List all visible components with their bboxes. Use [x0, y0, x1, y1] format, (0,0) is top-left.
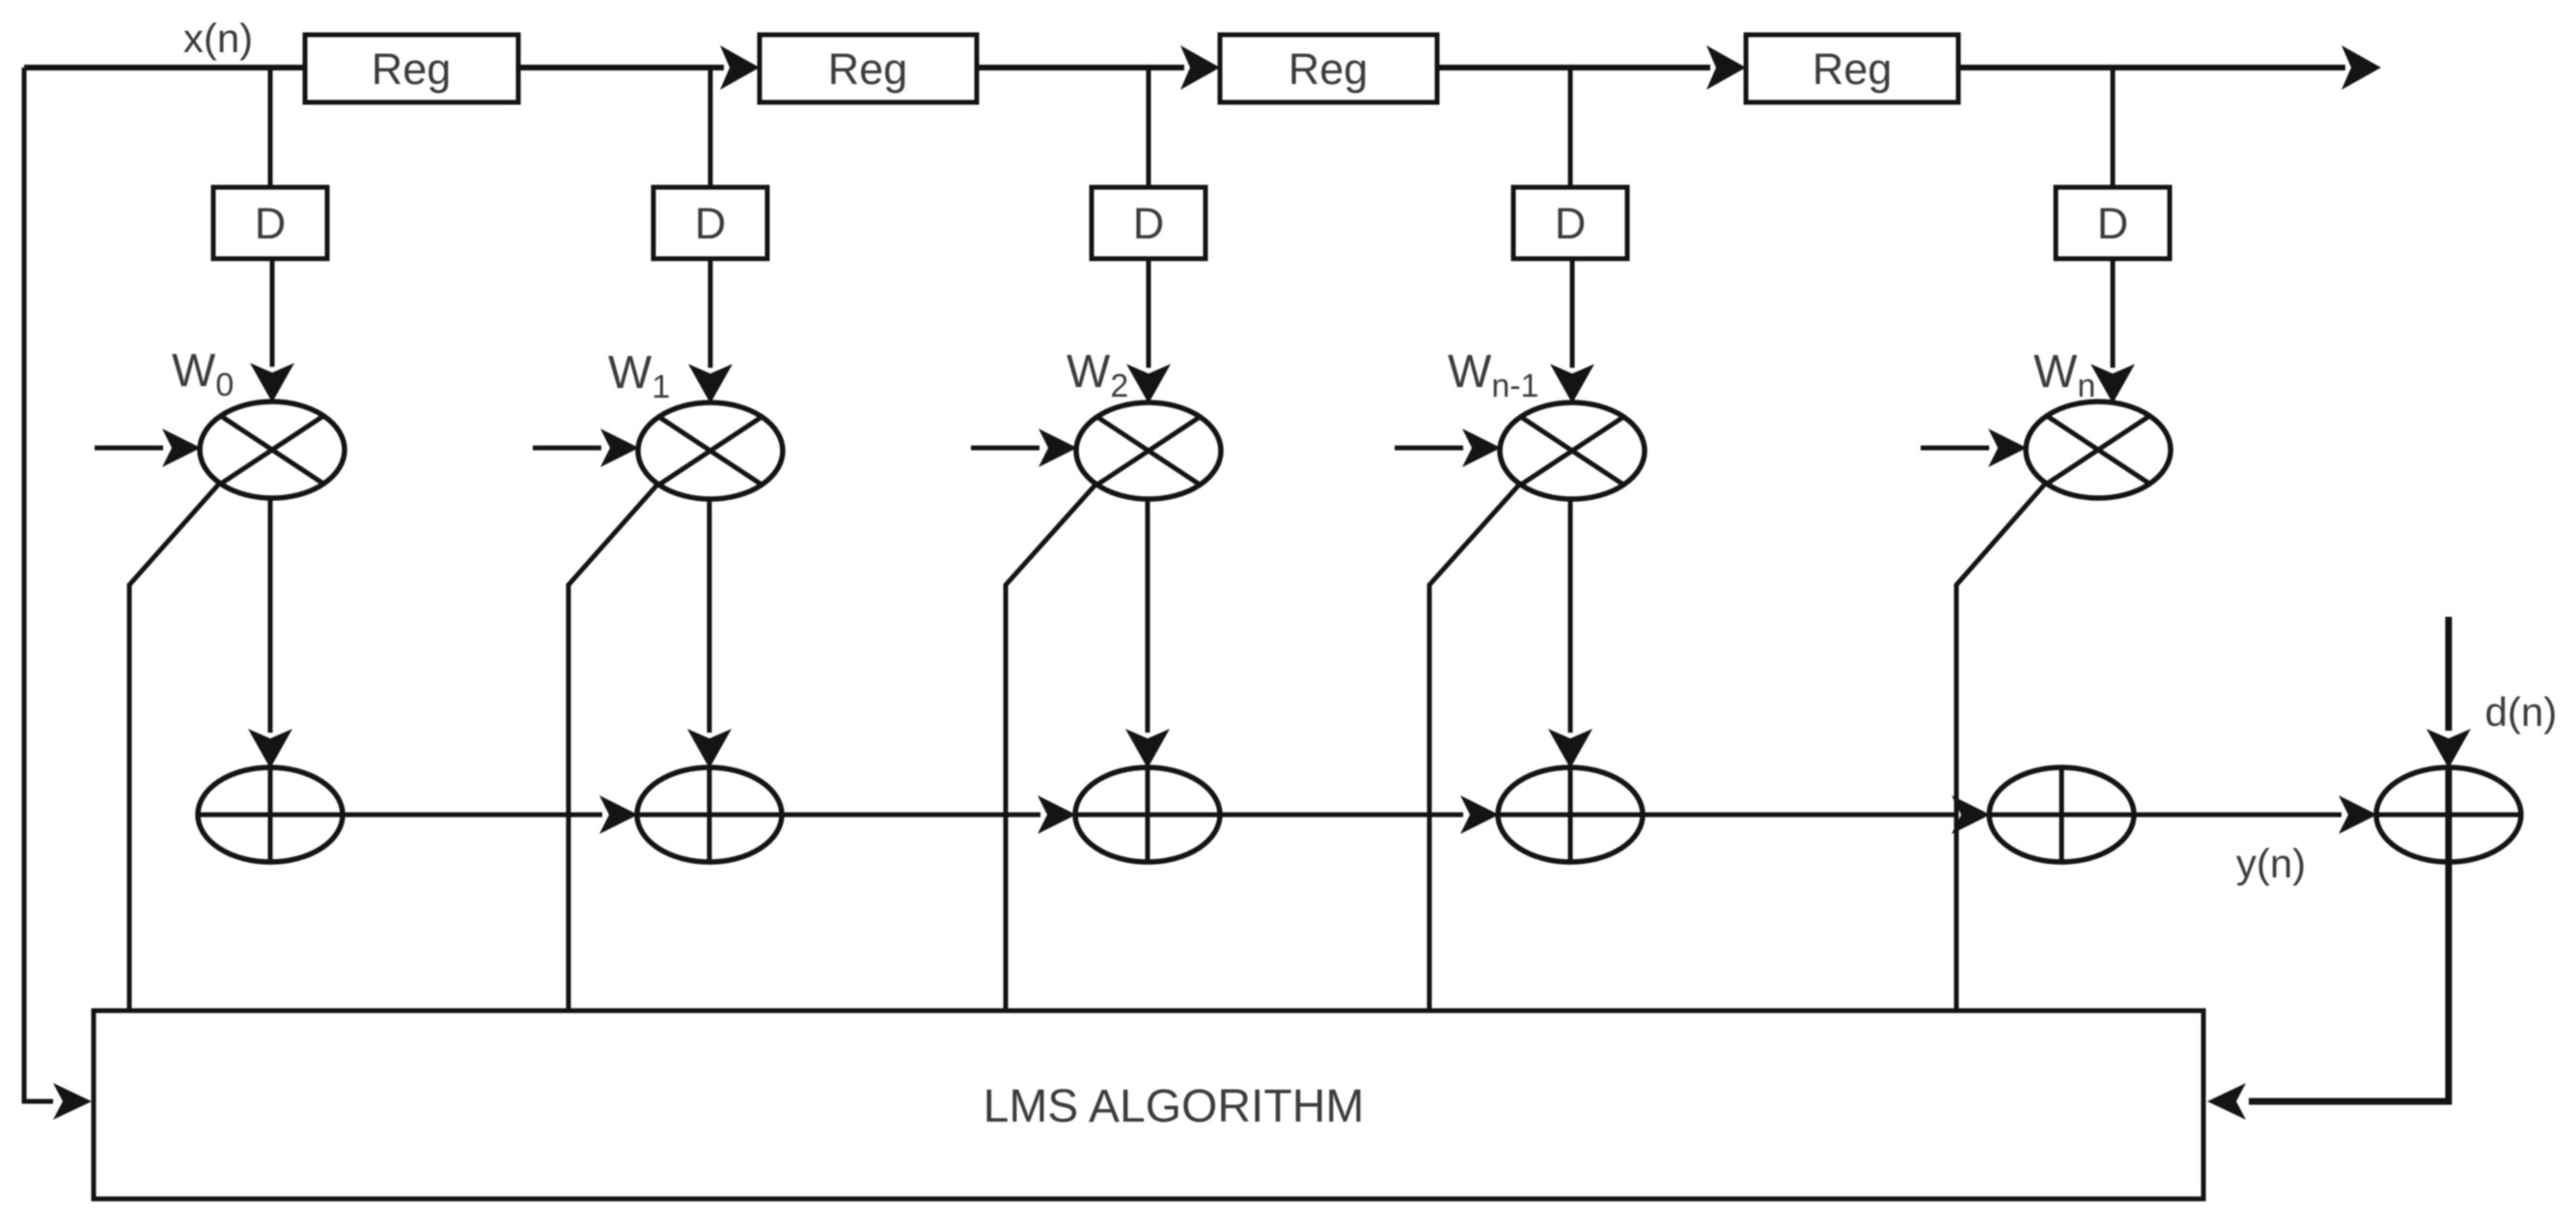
delay block D5	[2056, 187, 2170, 259]
register Reg4	[1746, 35, 1958, 102]
arrowhead into adder S1	[248, 729, 292, 768]
wire weight input into multiplier M5	[1921, 446, 1989, 451]
multiplier M4 (Wn-1)	[1500, 403, 1645, 499]
svg-text:y(n): y(n)	[2236, 841, 2306, 886]
arrowhead weight input M1	[162, 429, 201, 467]
register Reg1	[305, 35, 518, 102]
svg-text:LMS ALGORITHM: LMS ALGORITHM	[983, 1081, 1365, 1132]
arrowhead into adder S2	[599, 795, 638, 834]
svg-text:Reg: Reg	[1813, 44, 1893, 94]
arrowhead into multiplier M1	[250, 363, 294, 403]
multiplier M1 (W0)	[200, 402, 345, 498]
wire multiplier M4 output down to adder S4	[1568, 498, 1573, 733]
adder S3	[1075, 767, 1220, 862]
arrowhead main line output end	[2341, 45, 2381, 90]
wire adder S3 to adder S4	[1218, 813, 1463, 818]
svg-text:D: D	[695, 199, 727, 248]
wire adder S2 to adder S3	[780, 813, 1040, 818]
arrowhead into adder S4	[1548, 729, 1593, 768]
adder S6	[2376, 767, 2521, 862]
wire multiplier M2 tap feedback down to LMS block	[568, 484, 658, 1014]
svg-text:D: D	[1133, 199, 1165, 248]
delay block D4	[1513, 187, 1627, 259]
arrowhead into adder S3	[1125, 729, 1170, 768]
wire tap 2 from main line down to D2	[708, 68, 713, 191]
svg-text:x(n): x(n)	[183, 15, 253, 61]
adder S1	[198, 767, 343, 862]
arrowhead into Reg3	[1180, 45, 1220, 90]
register Reg3	[1220, 35, 1437, 102]
adder S4	[1498, 767, 1643, 862]
wire x(n) feedback down left side to LMS	[24, 68, 53, 1101]
wire tap 1 from main line down to D1	[268, 68, 273, 191]
wire adder S5 to adder S6	[2132, 813, 2341, 818]
svg-text:d(n): d(n)	[2485, 689, 2558, 735]
wire adder S1 to adder S2	[341, 813, 602, 818]
wire multiplier M5 tap feedback down to LMS block	[1956, 483, 2046, 1014]
wire D1 down to multiplier M1	[270, 259, 275, 367]
wire multiplier M1 output down to adder S1	[268, 497, 273, 733]
arrowhead into adder S2	[687, 729, 732, 768]
wire Reg3 to Reg4	[1437, 65, 1710, 70]
wire Reg1 to Reg2	[518, 65, 724, 70]
svg-text:Reg: Reg	[1288, 44, 1369, 94]
arrowhead weight input M5	[1988, 429, 2027, 467]
wire x(n) main input line to Reg1	[24, 65, 307, 70]
multiplier M3 (W2)	[1076, 403, 1221, 499]
wire multiplier M3 tap feedback down to LMS block	[1006, 484, 1096, 1014]
delay block D1	[213, 187, 327, 259]
wire multiplier M2 output down to adder S2	[707, 498, 712, 733]
wire weight input into multiplier M3	[971, 446, 1039, 451]
wire multiplier M4 tap feedback down to LMS block	[1429, 484, 1520, 1014]
wire adder S4 to adder S5	[1641, 813, 1954, 818]
wire error feedback from adder S6 down to LMS block	[2249, 767, 2449, 1101]
delay block D3	[1092, 187, 1205, 259]
wire tap 3 from main line down to D3	[1147, 68, 1151, 191]
svg-text:D: D	[2097, 199, 2129, 248]
arrowhead weight input M2	[600, 429, 639, 467]
adder S5	[1989, 767, 2134, 862]
arrowhead d(n) into adder S6	[2426, 729, 2471, 768]
wire Reg2 to Reg3	[977, 65, 1184, 70]
wire weight input into multiplier M1	[95, 446, 163, 451]
wire Reg4 output line	[1958, 65, 2345, 70]
wire D3 down to multiplier M3	[1147, 259, 1151, 368]
wire weight input into multiplier M2	[533, 446, 601, 451]
wire D5 down to multiplier M5	[2111, 259, 2116, 368]
arrowhead weight input M4	[1462, 429, 1501, 467]
register Reg2	[760, 35, 977, 102]
wire tap 5 from main line down to D5	[2111, 68, 2116, 191]
wire multiplier M3 output down to adder S3	[1146, 498, 1150, 733]
arrowhead weight input M3	[1039, 429, 1077, 467]
svg-text:Reg: Reg	[828, 44, 908, 94]
wire d(n) input down into final adder S6	[2446, 617, 2452, 731]
LMS algorithm block	[94, 1011, 2203, 1199]
delay block D2	[653, 187, 767, 259]
arrowhead into Reg4	[1706, 45, 1746, 90]
multiplier M5 (Wn)	[2026, 402, 2171, 498]
wire weight input into multiplier M4	[1395, 446, 1463, 451]
arrowhead into multiplier M3	[1126, 364, 1171, 403]
arrowhead x(n) feedback into LMS left edge	[53, 1083, 92, 1120]
arrowhead into Reg2	[720, 45, 760, 90]
arrowhead into multiplier M5	[2091, 364, 2135, 403]
adder S2	[637, 767, 782, 862]
arrowhead into multiplier M4	[1550, 364, 1594, 403]
wire D4 down to multiplier M4	[1570, 259, 1575, 368]
arrowhead error feedback into LMS right edge	[2207, 1083, 2246, 1120]
multiplier M2 (W1)	[638, 403, 783, 499]
arrowhead into adder S4	[1460, 795, 1499, 834]
svg-text:Reg: Reg	[372, 44, 452, 94]
svg-text:D: D	[1555, 199, 1587, 248]
svg-text:D: D	[255, 199, 287, 248]
arrowhead into multiplier M2	[688, 364, 733, 403]
wire multiplier M1 tap feedback down to LMS block	[129, 483, 220, 1014]
arrowhead into adder S3	[1038, 795, 1076, 834]
arrowhead into adder S6	[2339, 795, 2377, 834]
arrowhead into adder S5	[1952, 795, 1990, 834]
wire D2 down to multiplier M2	[708, 259, 713, 368]
wire tap 4 from main line down to D4	[1568, 68, 1573, 191]
